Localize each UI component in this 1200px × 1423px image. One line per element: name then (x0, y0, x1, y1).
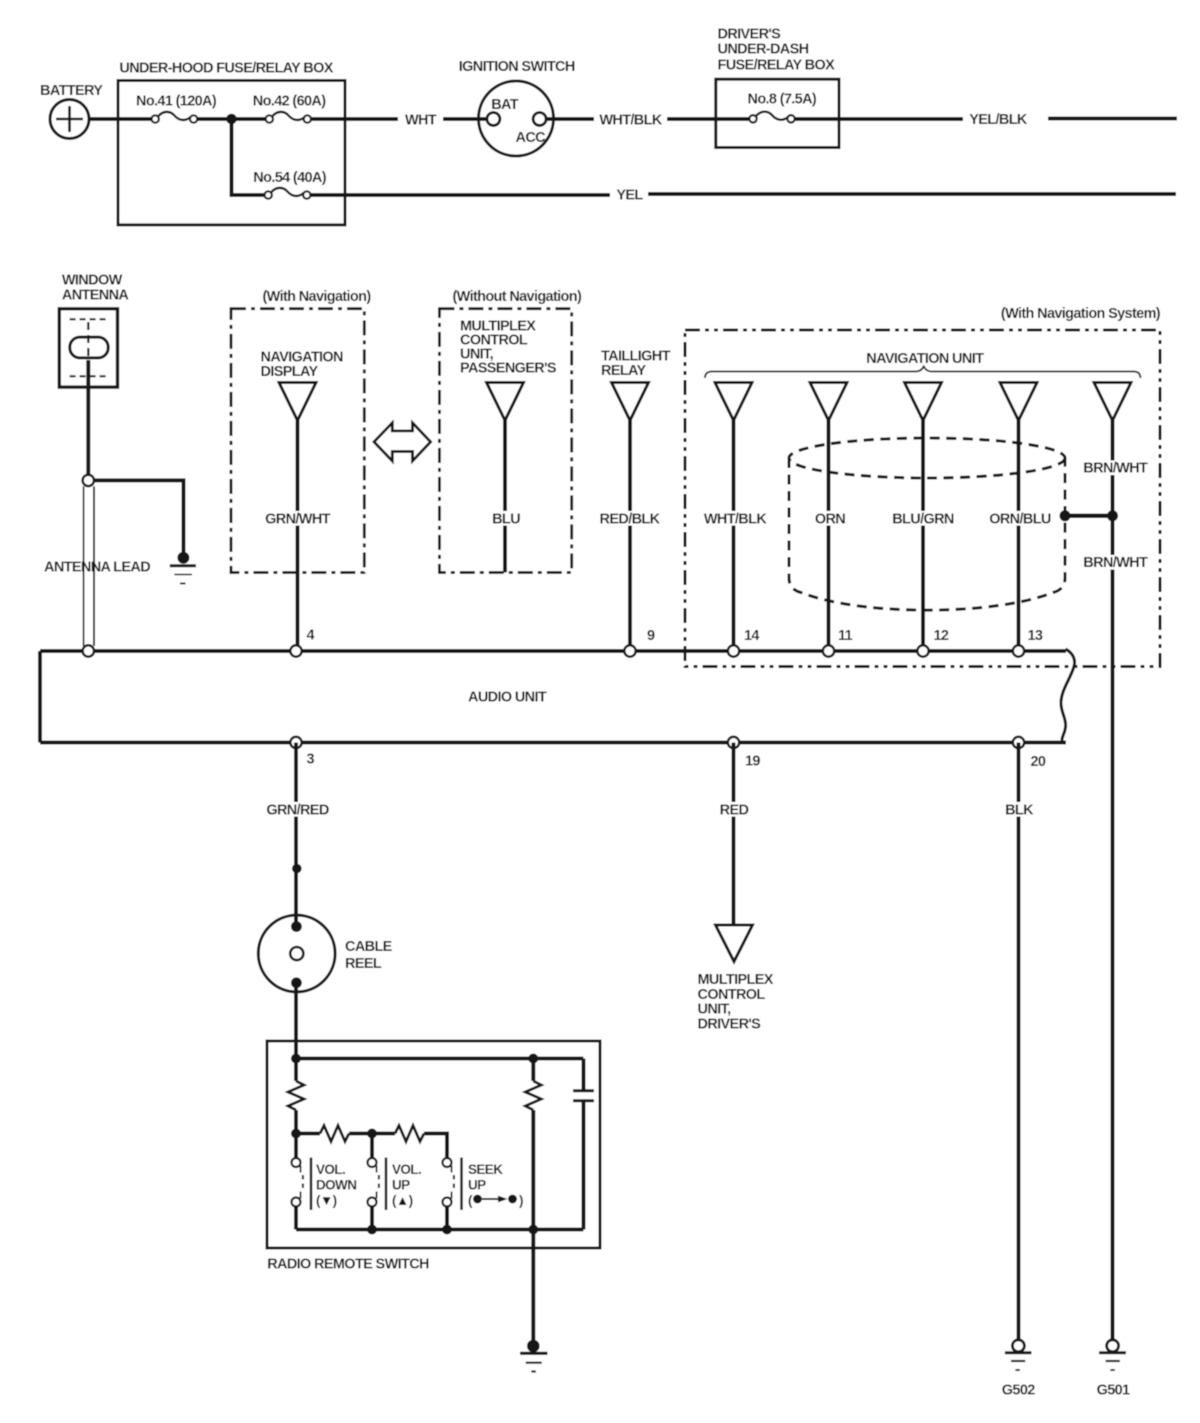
svg-text:REEL: REEL (345, 956, 382, 972)
svg-text:BRN/WHT: BRN/WHT (1083, 555, 1148, 571)
svg-text:MULTIPLEX: MULTIPLEX (698, 972, 774, 988)
svg-text:DRIVER'S: DRIVER'S (718, 27, 782, 43)
svg-text:(With Navigation System): (With Navigation System) (1001, 306, 1161, 322)
svg-text:RED: RED (720, 803, 749, 819)
svg-text:VOL.: VOL. (392, 1162, 421, 1177)
svg-text:ANTENNA LEAD: ANTENNA LEAD (44, 560, 150, 576)
svg-text:): ) (519, 1193, 523, 1208)
svg-text:BLK: BLK (1005, 803, 1034, 819)
svg-text:14: 14 (744, 628, 759, 644)
svg-text:WHT/BLK: WHT/BLK (599, 113, 662, 129)
svg-text:(▲): (▲) (392, 1193, 413, 1208)
svg-text:BATTERY: BATTERY (40, 83, 103, 99)
svg-text:(Without Navigation): (Without Navigation) (453, 289, 582, 305)
svg-text:DISPLAY: DISPLAY (261, 364, 319, 380)
svg-text:ACC: ACC (516, 130, 547, 146)
svg-text:WHT: WHT (405, 113, 437, 129)
svg-text:UP: UP (468, 1178, 486, 1193)
svg-text:FUSE/RELAY BOX: FUSE/RELAY BOX (718, 57, 836, 73)
svg-text:WINDOW: WINDOW (62, 272, 123, 288)
svg-text:BLU: BLU (492, 512, 520, 528)
svg-text:DRIVER'S: DRIVER'S (698, 1017, 762, 1033)
svg-text:No.41 (120A): No.41 (120A) (136, 94, 217, 110)
svg-text:No.8 (7.5A): No.8 (7.5A) (748, 92, 817, 108)
svg-text:CABLE: CABLE (345, 939, 393, 955)
svg-text:DOWN: DOWN (316, 1178, 356, 1193)
svg-text:3: 3 (307, 752, 315, 768)
svg-text:WHT/BLK: WHT/BLK (704, 512, 767, 528)
svg-text:BRN/WHT: BRN/WHT (1083, 461, 1148, 477)
svg-text:BLU/GRN: BLU/GRN (892, 512, 954, 528)
svg-text:G501: G501 (1097, 1383, 1130, 1399)
svg-text:AUDIO UNIT: AUDIO UNIT (468, 690, 547, 706)
svg-text:VOL.: VOL. (316, 1162, 345, 1177)
svg-text:ORN: ORN (815, 512, 845, 528)
svg-text:RELAY: RELAY (601, 363, 647, 379)
svg-text:ANTENNA: ANTENNA (62, 287, 130, 303)
svg-text:YEL/BLK: YEL/BLK (969, 112, 1028, 128)
svg-text:RED/BLK: RED/BLK (600, 512, 661, 528)
svg-text:19: 19 (745, 754, 760, 770)
svg-text:4: 4 (307, 628, 315, 644)
svg-text:ORN/BLU: ORN/BLU (989, 512, 1051, 528)
svg-text:RADIO REMOTE SWITCH: RADIO REMOTE SWITCH (267, 1257, 429, 1273)
svg-text:9: 9 (647, 628, 655, 644)
svg-text:NAVIGATION UNIT: NAVIGATION UNIT (866, 351, 984, 367)
svg-text:UP: UP (392, 1178, 410, 1193)
svg-text:UNDER-HOOD FUSE/RELAY BOX: UNDER-HOOD FUSE/RELAY BOX (119, 61, 333, 77)
svg-text:(▼): (▼) (316, 1193, 337, 1208)
svg-text:IGNITION SWITCH: IGNITION SWITCH (459, 59, 575, 75)
svg-text:PASSENGER'S: PASSENGER'S (460, 361, 557, 377)
svg-text:YEL: YEL (616, 188, 643, 204)
svg-text:BAT: BAT (491, 97, 519, 113)
svg-text:G502: G502 (1002, 1383, 1035, 1399)
svg-text:No.42 (60A): No.42 (60A) (253, 94, 326, 110)
svg-text:(With Navigation): (With Navigation) (263, 289, 372, 305)
svg-text:GRN/RED: GRN/RED (266, 803, 328, 819)
svg-text:13: 13 (1028, 628, 1043, 644)
svg-text:SEEK: SEEK (468, 1162, 503, 1177)
svg-text:12: 12 (934, 628, 949, 644)
svg-text:UNDER-DASH: UNDER-DASH (718, 42, 809, 58)
svg-text:11: 11 (838, 628, 853, 644)
svg-text:No.54 (40A): No.54 (40A) (253, 170, 326, 186)
svg-text:UNIT,: UNIT, (698, 1002, 732, 1018)
svg-text:GRN/WHT: GRN/WHT (265, 512, 331, 528)
svg-text:20: 20 (1031, 754, 1046, 770)
